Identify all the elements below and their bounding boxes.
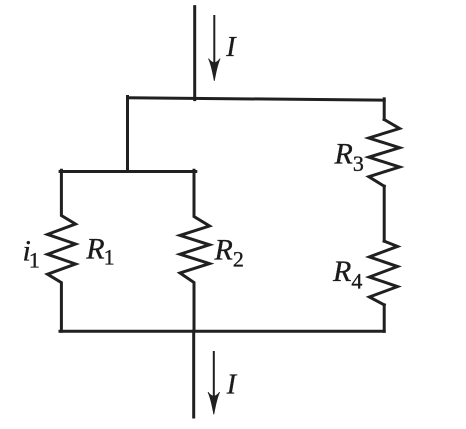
svg-text:I: I	[226, 370, 238, 401]
wire: top horizontal	[128, 98, 385, 101]
resistor R3	[369, 120, 400, 187]
svg-text:R3: R3	[334, 138, 364, 177]
wire: top feed vertical into node	[193, 7, 196, 100]
wire: middle horizontal	[60, 170, 196, 173]
wire: left drop from top wire	[126, 97, 129, 172]
wire: right branch bottom stub	[383, 305, 386, 331]
wire: bottom horizontal	[60, 330, 384, 333]
svg-text:i1: i1	[23, 235, 40, 273]
wire: right branch top stub	[383, 99, 386, 120]
wire: bottom exit vertical	[192, 331, 195, 417]
svg-text:R2: R2	[214, 234, 244, 272]
resistor R1	[48, 170, 76, 331]
current arrow I (bottom)	[208, 352, 220, 414]
resistor R4	[369, 241, 397, 305]
svg-text:I: I	[225, 32, 237, 63]
svg-text:R4: R4	[332, 255, 362, 294]
resistor R2	[180, 170, 210, 331]
svg-text:R1: R1	[85, 233, 114, 270]
current arrow I (top)	[209, 16, 221, 81]
wire: between R3 and R4	[383, 186, 386, 241]
